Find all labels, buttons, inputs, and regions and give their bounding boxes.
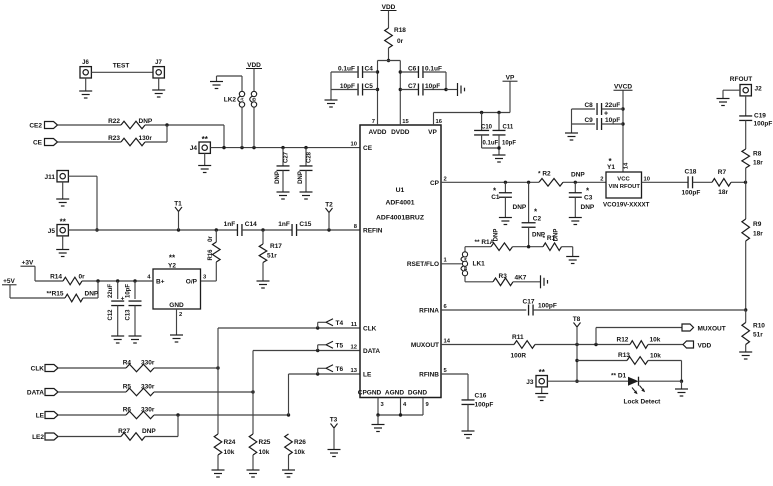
ground (R17) [257,263,270,289]
svg-text:C4: C4 [365,66,374,73]
svg-text:10: 10 [644,176,650,182]
svg-text:100pF: 100pF [682,190,701,197]
svg-text:VDD: VDD [247,62,261,69]
resistor R23 [108,135,152,146]
ground (J2) [717,90,741,105]
svg-text:AGND: AGND [385,390,404,397]
svg-text:TEST: TEST [113,63,130,70]
port CLK [31,365,58,373]
svg-text:MUXOUT: MUXOUT [698,326,726,333]
wire MUXOUT branch [596,328,682,345]
svg-text:C7: C7 [408,83,417,90]
wire VP rail to pin16 [434,111,511,125]
resistor R2 [538,171,585,187]
svg-text:RFINB: RFINB [419,372,439,379]
svg-text:15: 15 [402,119,409,125]
resistor R14 [50,274,85,285]
wire R14 to Y2 B+ [82,279,153,282]
capacitor C19 [739,96,772,149]
jumper LK2 B [250,91,257,107]
wire pin12 DATA line [253,350,360,352]
wire LK2 B to CE line [253,108,255,148]
resistor R12 [617,337,661,349]
svg-text:CLK: CLK [31,366,45,373]
svg-text:**R15: **R15 [47,291,64,298]
wire R4 to node / riser to pin11 [154,328,220,370]
wire J3 to D1 [547,380,628,382]
svg-text:CE: CE [33,140,43,147]
ground (LK2 A) [210,76,242,91]
capacitor C28 [298,148,313,192]
resistor R26 [285,434,307,456]
resistor R27 [118,428,156,440]
svg-text:LE: LE [36,413,45,420]
svg-text:DNP: DNP [85,291,99,298]
pin numbers U1 [351,119,451,408]
ground (C8/C9) [565,109,578,140]
svg-text:13: 13 [351,368,358,374]
svg-text:10k: 10k [294,449,305,456]
IC U1 ADF4001BRUZ [358,125,441,398]
label LK2 [224,97,237,104]
capacitor C8 [572,102,624,118]
capacitor C5 [331,83,378,96]
svg-text:J11: J11 [45,174,56,181]
svg-text:J4: J4 [190,145,198,152]
svg-text:R27: R27 [118,428,130,435]
svg-text:DATA: DATA [363,348,380,355]
svg-text:C17: C17 [523,299,535,306]
svg-text:16: 16 [436,119,443,125]
svg-text:RSET/FLO: RSET/FLO [407,261,439,268]
svg-text:CE2: CE2 [29,123,42,130]
ground (J6) [79,78,92,98]
capacitor C18 [682,169,713,197]
wire R22 to node [145,124,224,126]
testpoint T1 [174,201,182,231]
port LE2 [32,433,58,441]
svg-text:**: ** [169,254,176,263]
svg-text:LE: LE [363,372,372,379]
svg-text:CE: CE [363,145,373,152]
svg-text:C14: C14 [245,221,257,228]
svg-text:C16: C16 [475,393,487,400]
ground (C12) [111,336,124,343]
ground (C10/C11) [493,155,506,162]
svg-text:+5V: +5V [3,278,15,285]
capacitor C13 [126,281,142,336]
svg-text:RFOUT: RFOUT [730,76,752,83]
svg-text:10k: 10k [259,449,270,456]
svg-text:10pF: 10pF [425,83,440,90]
wire R18 to AVDD/DVDD rail [378,48,401,62]
ground (C4/C5) [325,72,338,107]
svg-text:VP: VP [428,129,437,136]
svg-text:C28: C28 [307,151,313,163]
power VDD (LK2) [246,62,262,91]
svg-text:J5: J5 [48,228,56,235]
svg-text:T1: T1 [174,201,182,208]
wire Y1 RFOUT to C18 [642,181,689,183]
capacitor C15 [278,221,311,236]
port MUXOUT [682,324,726,333]
svg-text:T6: T6 [336,366,344,373]
resistor R15 [47,291,99,302]
svg-text:DNP: DNP [571,172,585,179]
svg-text:C1: C1 [491,194,500,201]
svg-text:14: 14 [444,339,451,345]
wire R23 up to CE2 node [145,125,167,142]
wire J11 to REFIN line [68,176,98,232]
ground (C13) [129,336,142,343]
testpoint T3 [330,417,338,450]
wire CLK to R4 [58,367,126,369]
svg-text:DNP: DNP [142,428,156,435]
svg-text:22uF: 22uF [108,284,114,298]
power +5V [2,278,65,298]
power +3V [21,260,64,282]
ground (J3) [535,387,548,401]
wire DVDD riser pin15 [399,61,402,126]
svg-text:C3: C3 [584,195,593,202]
svg-text:10pF: 10pF [502,141,516,147]
svg-text:C19: C19 [754,113,766,120]
svg-text:R22: R22 [108,118,120,125]
wire R15 to +3V node [83,281,98,298]
svg-text:C5: C5 [365,83,374,90]
svg-text:DNP: DNP [298,171,304,184]
svg-text:RFOUT: RFOUT [620,184,641,190]
wire R5 to node / riser to pin12 [154,351,255,394]
wire CE2 to R22 [58,124,122,126]
svg-text:MUXOUT: MUXOUT [411,342,439,349]
svg-text:R25: R25 [259,439,271,446]
ground (C1) [499,218,512,225]
svg-text:R23: R23 [108,135,120,142]
svg-text:12: 12 [351,345,357,351]
svg-text:10pF: 10pF [126,284,132,298]
resistor R10 [742,310,765,345]
resistor R16 [208,230,220,262]
ground (C27) [277,192,290,199]
svg-text:18r: 18r [718,189,728,196]
svg-text:51r: 51r [267,253,277,260]
svg-text:R26: R26 [294,439,306,446]
capacitor C7 [400,83,446,96]
svg-text:VDD: VDD [382,4,396,11]
wire R8 to node [745,168,747,182]
resistor R6 [123,407,155,419]
svg-text:C8: C8 [584,102,593,109]
ground (C6/C7 right) [458,83,465,96]
svg-text:C27: C27 [284,151,290,163]
capacitor C12 [108,281,125,336]
svg-text:2: 2 [444,176,447,182]
wire C10 to C11 bottom [482,146,501,149]
capacitor C3 [569,182,595,217]
testpoint T5 [316,341,343,352]
power VVCO [614,84,633,172]
svg-text:VVCD: VVCD [614,84,632,91]
svg-text:14: 14 [624,162,630,169]
svg-text:VCC: VCC [617,177,630,183]
svg-text:0r: 0r [208,235,214,241]
resistor R24 [214,368,236,456]
svg-text:0.1uF: 0.1uF [425,66,442,73]
ground (R3 right) [541,275,548,288]
svg-text:VCO19V-XXXXT: VCO19V-XXXXT [603,202,650,209]
port DATA [27,389,58,397]
wire C17 to RF divider [533,309,746,311]
capacitor C9 [572,117,624,130]
svg-text:J6: J6 [82,60,89,66]
svg-text:DNP: DNP [513,204,527,211]
connector J11 [45,171,69,182]
svg-text:LK1: LK1 [473,260,486,267]
svg-text:DNP: DNP [554,229,560,242]
svg-text:R7: R7 [718,169,727,176]
svg-text:C18: C18 [685,169,697,176]
connector J6 [80,60,91,78]
resistor R3 [465,273,540,286]
wire pin11 CLK line [218,327,360,329]
svg-text:DNP: DNP [494,229,500,242]
svg-text:T4: T4 [336,320,344,327]
port CE [33,139,58,147]
svg-text:R18: R18 [394,27,406,34]
svg-text:C13: C13 [126,309,132,321]
wire R11 to R12 [535,343,630,346]
svg-text:0r: 0r [397,38,404,45]
svg-text:VDD: VDD [698,343,712,350]
svg-text:7: 7 [372,119,375,125]
resistor R18 [385,27,407,48]
svg-text:2: 2 [179,312,182,318]
svg-text:11: 11 [351,322,358,328]
svg-text:AVDD: AVDD [369,129,387,136]
testpoint T4 [316,319,343,330]
resistor R11 [511,334,536,360]
testpoint T6 [316,365,343,376]
svg-text:10k: 10k [224,449,235,456]
wire AVDD riser pin7 [376,61,379,126]
ground (C28) [300,192,313,199]
svg-text:O/P: O/P [186,279,198,286]
svg-text:R14: R14 [50,274,62,281]
ground (D1) [675,381,688,396]
wire R1A row [465,245,543,248]
svg-text:330r: 330r [141,384,155,391]
svg-text:** D1: ** D1 [611,373,627,380]
svg-text:R9: R9 [753,221,762,228]
resistor R22 [108,118,153,129]
svg-text:10k: 10k [650,337,661,344]
resistor R13 [577,352,661,364]
svg-text:4K7: 4K7 [515,274,527,281]
port CE2 [29,122,57,130]
svg-text:100pF: 100pF [538,303,557,310]
svg-text:LE2: LE2 [32,434,44,441]
jumper LK1 [461,247,485,282]
svg-text:DNP: DNP [139,118,153,125]
ground (J7) [152,78,165,97]
wire RFINA pin6 to C17 [441,309,526,311]
svg-text:DGND: DGND [408,390,427,397]
svg-text:330r: 330r [141,407,155,414]
port VDD [683,341,712,350]
svg-text:* R2: * R2 [538,171,551,178]
svg-text:0r: 0r [79,274,86,281]
node CE junction [165,123,168,126]
wire RFINB pin5 to C16 [441,374,468,400]
ground (R25) [247,455,260,477]
wire T8 node down to R13/D1 [575,345,578,383]
resistor R5 [123,384,155,396]
svg-text:18r: 18r [753,160,763,167]
power VDD (R18) [381,4,397,28]
wire CE to R23 [58,141,122,143]
svg-text:R8: R8 [753,151,762,158]
svg-text:DNP: DNP [581,204,595,211]
jumper LK2 A [238,91,245,107]
svg-text:R12: R12 [617,337,629,344]
wire pin13 LE line [289,373,361,375]
ground (T3) [328,450,341,457]
capacitor C16 [462,393,494,432]
VCO Y1 [600,157,650,209]
svg-text:C9: C9 [584,117,593,124]
resistor R7 [712,169,731,196]
wire D1 to ground [639,380,682,382]
wire R9 to RFINA node [744,241,747,312]
wire MUXOUT pin14 to R11 [441,344,514,346]
wire R16 to Y2 O/P pin3 [201,262,217,281]
svg-text:T5: T5 [336,343,344,350]
ground (R1) [562,247,580,264]
ground (Y2 pin2) [170,309,183,342]
ground (J11) [56,182,69,206]
svg-text:VIN: VIN [609,184,619,190]
svg-text:RFINA: RFINA [419,308,439,315]
wire LE2 to R27 [58,436,121,438]
svg-text:130r: 130r [139,135,153,142]
svg-text:100pF: 100pF [475,402,494,409]
ground (R26) [282,455,295,477]
svg-text:1nF: 1nF [278,221,290,228]
ground (R10) [739,345,752,360]
capacitor C4 [331,66,378,79]
resistor R1 [543,229,562,251]
svg-text:T8: T8 [573,316,581,323]
svg-text:100R: 100R [511,353,527,360]
wire R2 to Y1 VIN [563,181,606,184]
wire LE to R6 [58,414,126,416]
wire CP pin2 to R2 [441,181,539,184]
capacitor C6 [400,66,446,79]
svg-text:CLK: CLK [363,326,377,333]
svg-text:C15: C15 [299,221,311,228]
wire TEST net [91,63,153,73]
svg-text:DNP: DNP [275,171,281,184]
svg-text:330r: 330r [141,360,155,367]
connector J3 [526,368,547,387]
svg-text:R17: R17 [270,243,282,250]
svg-text:51r: 51r [753,332,763,339]
wire REFIN line J5 to C14 [68,228,237,231]
svg-text:LK2: LK2 [224,97,237,104]
svg-text:T3: T3 [330,417,338,424]
resistor R8 [742,149,763,168]
svg-text:CP: CP [430,180,440,187]
capacitor C27 [275,148,290,192]
svg-text:10: 10 [351,142,357,148]
resistor R1A [475,229,513,251]
wire LK2 A to CE line [241,108,243,148]
svg-text:J7: J7 [155,60,162,66]
ground (C3) [569,218,582,225]
svg-text:C10: C10 [481,125,493,131]
connector J2 RFOUT [730,76,762,96]
wire node down to CE line [223,125,225,148]
power VP [503,75,518,113]
svg-text:C12: C12 [108,309,114,321]
wire R6 to node / riser to pin13 [154,374,290,417]
wire DATA to R5 [58,391,126,393]
wire C6 to C7 [444,72,457,91]
resistor R4 [123,360,155,372]
svg-text:Y1: Y1 [607,164,615,171]
svg-text:R10: R10 [753,323,765,330]
ground (J4) [198,153,211,172]
svg-text:GND: GND [169,302,184,309]
svg-text:C11: C11 [503,125,514,131]
capacitor C14 [224,221,257,236]
svg-text:10k: 10k [650,353,661,360]
svg-text:+3V: +3V [22,260,34,267]
connector J4 [190,135,211,153]
testpoint T8 [573,316,581,345]
ground (C16) [462,431,475,438]
svg-text:1nF: 1nF [224,221,236,228]
connector J5 [48,218,69,236]
svg-text:R16: R16 [208,249,214,261]
svg-text:U1: U1 [396,187,405,194]
svg-text:CPGND: CPGND [358,390,382,397]
svg-text:B+: B+ [156,279,165,286]
oscillator Y2 [147,254,207,319]
resistor R25 [249,392,271,456]
capacitor C1 [491,182,527,217]
wire C14 to C15 [242,228,292,231]
LED D1 Lock Detect [611,373,661,406]
wire R12 to VDD port [648,344,683,346]
ground (J5) [56,236,69,257]
svg-text:R24: R24 [224,439,236,446]
svg-text:T2: T2 [325,202,333,209]
capacitor C17 [523,299,557,316]
svg-text:0.1uF: 0.1uF [483,141,499,147]
wire R27 up to LE line [145,415,178,437]
svg-text:VP: VP [506,75,515,82]
svg-text:J2: J2 [755,86,763,93]
resistor R17 [259,230,282,263]
svg-text:Lock Detect: Lock Detect [624,399,662,406]
svg-text:DVDD: DVDD [391,129,410,136]
svg-text:100pF: 100pF [754,121,773,128]
svg-text:C2: C2 [533,215,542,222]
ground (U1 pins 3/4/9) [372,415,385,432]
svg-text:10pF: 10pF [605,117,620,124]
